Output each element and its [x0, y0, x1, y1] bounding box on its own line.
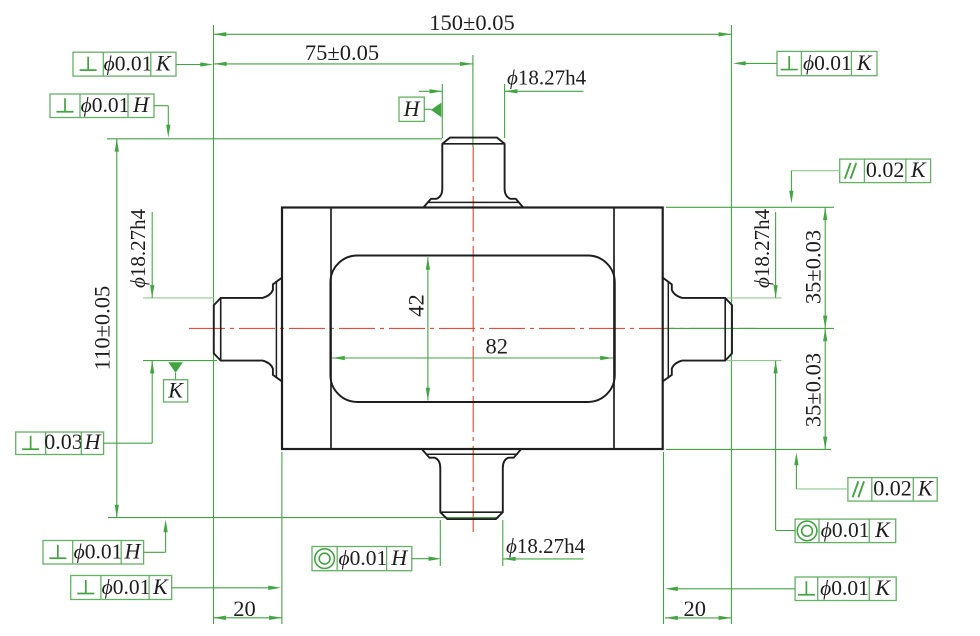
extension line center right: [666, 327, 834, 329]
dimension φ18.27h4 right shaft: [750, 208, 778, 530]
dimension 35±0.03 upper: [801, 207, 828, 449]
svg-text:ϕ0.01: ϕ0.01: [821, 518, 870, 542]
svg-text:K: K: [155, 51, 172, 76]
dimension φ18.27h4 left shaft: [126, 208, 154, 443]
leader top-left H frame: [154, 106, 170, 138]
dimension φ18.27h4 top shaft: [419, 66, 587, 94]
extension line top shaft right: [504, 84, 506, 138]
svg-text:H: H: [84, 429, 102, 454]
frame concentricity φ0.01 H bottom-center: [312, 545, 412, 571]
extension line bottom shaft right: [502, 520, 504, 566]
extension line right shaft bottom edge: [727, 360, 782, 362]
extension line left shaft bottom edge: [143, 360, 217, 362]
frame perpendicularity φ0.01 H bottom-left: [43, 539, 144, 565]
svg-text:K: K: [917, 476, 934, 501]
vertical centerline: [472, 146, 474, 534]
extension line body right edge: [663, 452, 665, 624]
svg-text:20: 20: [233, 596, 256, 621]
bottom shaft: [422, 450, 521, 520]
svg-text:K: K: [910, 157, 927, 182]
dimension 42: [404, 257, 431, 401]
leader top-right K frame: [733, 61, 777, 65]
extension line body bottom right: [666, 448, 831, 450]
svg-text:150±0.05: 150±0.05: [429, 10, 514, 35]
svg-text:K: K: [874, 517, 891, 542]
svg-text:H: H: [390, 545, 408, 570]
dimension 35±0.03 lower: [801, 328, 828, 449]
body inner flange line right: [613, 209, 615, 449]
svg-text:ϕ0.01: ϕ0.01: [820, 576, 869, 600]
svg-text:ϕ0.01: ϕ0.01: [102, 575, 151, 599]
datum H flag: [399, 96, 441, 122]
dimension φ18.27h4 bottom shaft: [503, 534, 586, 561]
extension line 110 bottom: [108, 517, 499, 519]
leader concentricity H frame: [412, 557, 442, 561]
leader parallelism K upper: [789, 171, 839, 204]
extension line top center: [472, 55, 474, 147]
leader parallelism K lower: [794, 453, 848, 489]
extension line 110 top: [107, 138, 442, 140]
leader top-left K frame: [176, 62, 213, 66]
svg-text:ϕ18.27h4: ϕ18.27h4: [750, 208, 774, 288]
frame perpendicularity 0.03 H left: [16, 429, 104, 455]
frame perpendicularity φ0.01 K top-right: [777, 50, 877, 76]
svg-text:H: H: [123, 539, 141, 564]
leader bottom-left K frame: [172, 586, 281, 590]
extension line left shaft end: [213, 25, 215, 624]
svg-text:K: K: [874, 575, 891, 600]
svg-text:ϕ0.01: ϕ0.01: [104, 52, 153, 76]
top shaft: [424, 138, 523, 207]
svg-text:H: H: [403, 96, 421, 121]
dimension 75±0.05: [214, 40, 473, 66]
dimension 20 left: [213, 596, 282, 621]
svg-text:K: K: [152, 574, 169, 599]
part body outline: [282, 208, 663, 450]
frame parallelism 0.02 K right-lower: [848, 476, 937, 502]
left shaft: [214, 277, 283, 382]
extension line body top right: [666, 206, 834, 208]
extension line left shaft top edge: [143, 297, 214, 299]
bore rounded rectangle: [330, 256, 614, 403]
dimension 82: [332, 334, 613, 361]
datum K flag: [164, 362, 188, 402]
dimension 110±0.05: [90, 139, 119, 518]
frame perpendicularity φ0.01 K bottom-right: [795, 575, 896, 601]
horizontal centerline: [189, 327, 756, 329]
extension line top shaft left: [441, 84, 443, 138]
svg-text:ϕ0.01: ϕ0.01: [81, 93, 130, 117]
frame perpendicularity φ0.01 K bottom-left: [71, 574, 172, 600]
leader bottom-left H frame: [144, 520, 168, 553]
frame concentricity φ0.01 K right: [795, 517, 896, 543]
svg-text:0.02: 0.02: [866, 157, 905, 182]
svg-text:ϕ18.27h4: ϕ18.27h4: [506, 534, 586, 558]
extension line bottom shaft left: [439, 520, 441, 566]
extension line right shaft end: [730, 25, 732, 624]
svg-text:0.02: 0.02: [873, 476, 912, 501]
body inner flange line left: [330, 209, 332, 449]
svg-text:ϕ0.01: ϕ0.01: [74, 540, 123, 564]
svg-text:82: 82: [486, 334, 509, 359]
svg-text:H: H: [132, 92, 150, 117]
svg-text:35±0.03: 35±0.03: [801, 353, 826, 427]
svg-text:110±0.05: 110±0.05: [90, 286, 115, 371]
svg-text:42: 42: [404, 294, 429, 317]
frame perpendicularity φ0.01 K top-left: [73, 51, 176, 77]
svg-text:75±0.05: 75±0.05: [305, 40, 379, 65]
leader concentricity K frame: [776, 530, 796, 532]
svg-text:K: K: [167, 378, 184, 403]
svg-text:35±0.03: 35±0.03: [801, 230, 826, 304]
svg-text:ϕ0.01: ϕ0.01: [803, 51, 852, 75]
right shaft: [662, 277, 732, 382]
svg-text:ϕ0.01: ϕ0.01: [339, 546, 388, 570]
frame perpendicularity φ0.01 H top-left: [50, 92, 154, 118]
dimension 20 right: [665, 596, 731, 621]
svg-text:0.03: 0.03: [44, 429, 83, 454]
dimension 150±0.05: [214, 10, 732, 36]
extension line body left edge: [281, 452, 283, 624]
extension line right shaft top edge: [727, 297, 782, 299]
svg-text:20: 20: [684, 596, 707, 621]
svg-text:K: K: [856, 50, 873, 75]
frame parallelism 0.02 K right-upper: [840, 157, 931, 183]
leader 0.03 H frame: [104, 442, 153, 444]
svg-text:ϕ18.27h4: ϕ18.27h4: [126, 208, 150, 288]
svg-text:ϕ18.27h4: ϕ18.27h4: [507, 66, 587, 90]
leader bottom-right K frame: [665, 587, 795, 591]
